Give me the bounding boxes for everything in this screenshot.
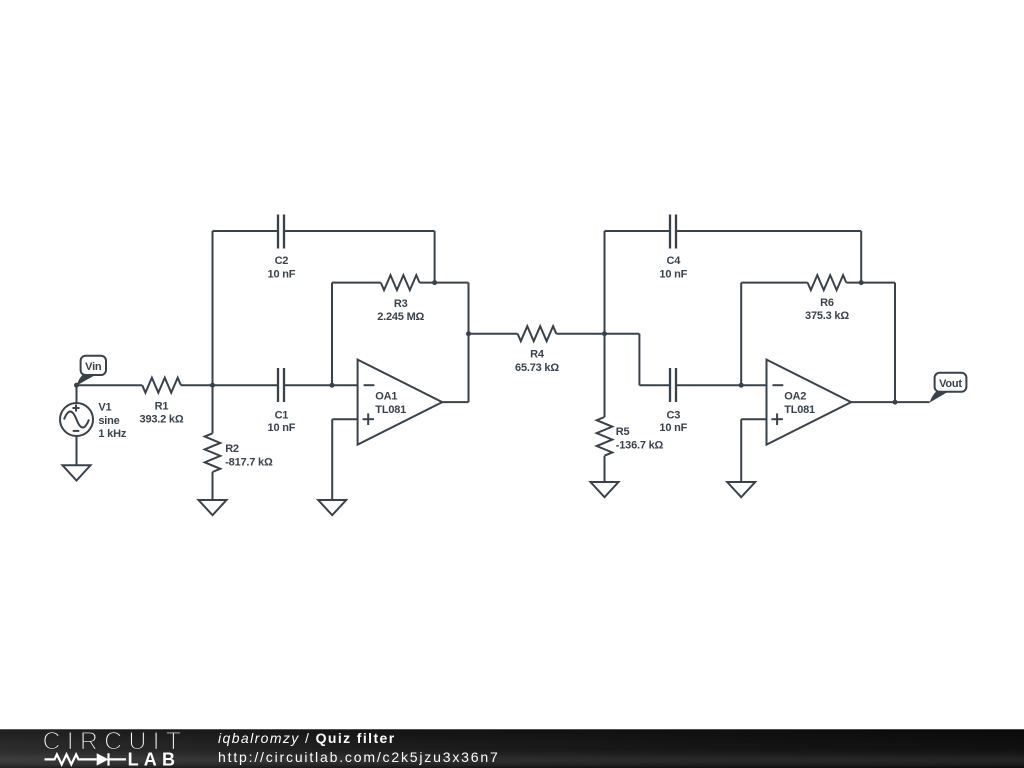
svg-text:OA2: OA2 — [784, 390, 806, 402]
svg-text:sine: sine — [98, 415, 119, 427]
svg-text:R2: R2 — [225, 443, 239, 455]
svg-text:10 nF: 10 nF — [659, 268, 687, 280]
svg-text:R6: R6 — [820, 297, 834, 309]
svg-text:R1: R1 — [155, 400, 169, 412]
svg-text:TL081: TL081 — [375, 404, 406, 416]
svg-text:TL081: TL081 — [784, 404, 815, 416]
svg-text:V1: V1 — [98, 402, 111, 414]
svg-text:OA1: OA1 — [375, 390, 397, 402]
svg-text:C4: C4 — [666, 255, 681, 267]
svg-text:C3: C3 — [666, 409, 680, 421]
svg-text:C1: C1 — [275, 409, 289, 421]
svg-text:-817.7 kΩ: -817.7 kΩ — [225, 456, 273, 468]
svg-text:2.245 MΩ: 2.245 MΩ — [377, 311, 424, 323]
svg-text:C2: C2 — [275, 255, 289, 267]
svg-text:iqbalromzy / Quiz filter: iqbalromzy / Quiz filter — [218, 730, 396, 746]
svg-text:R4: R4 — [530, 349, 545, 361]
svg-text:Vin: Vin — [85, 361, 102, 373]
svg-text:10 nF: 10 nF — [268, 268, 296, 280]
svg-text:R3: R3 — [394, 298, 408, 310]
svg-text:10 nF: 10 nF — [659, 422, 687, 434]
svg-text:-136.7 kΩ: -136.7 kΩ — [616, 439, 664, 451]
svg-text:Vout: Vout — [939, 378, 962, 390]
svg-text:1 kHz: 1 kHz — [98, 428, 126, 440]
svg-text:393.2 kΩ: 393.2 kΩ — [140, 414, 184, 426]
svg-text:LAB: LAB — [128, 749, 181, 768]
svg-text:10 nF: 10 nF — [268, 422, 296, 434]
svg-text:R5: R5 — [616, 426, 630, 438]
svg-text:http://circuitlab.com/c2k5jzu3: http://circuitlab.com/c2k5jzu3x36n7 — [218, 749, 500, 765]
svg-text:375.3 kΩ: 375.3 kΩ — [805, 310, 849, 322]
svg-text:65.73 kΩ: 65.73 kΩ — [515, 362, 559, 374]
